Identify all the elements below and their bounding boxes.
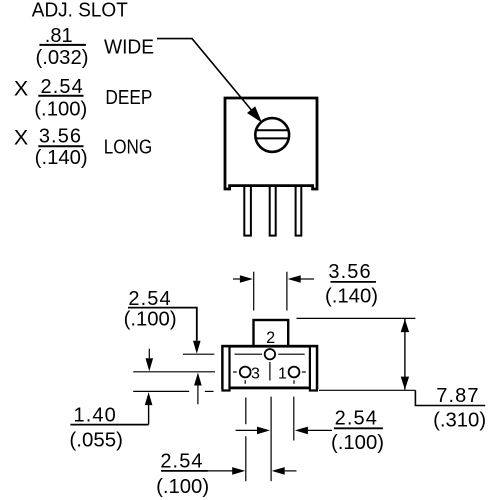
pin 1 terminal circle	[289, 367, 300, 378]
svg-text:1: 1	[278, 366, 287, 383]
bottom view: mounting tab	[254, 320, 289, 348]
center extension line	[270, 397, 272, 482]
svg-text:DEEP: DEEP	[105, 87, 152, 109]
svg-text:LONG: LONG	[104, 136, 153, 158]
fraction 3.56 bar	[38, 145, 83, 147]
dim 3.56 underline	[331, 281, 377, 283]
leader line from WIDE to screw slot	[157, 39, 252, 111]
svg-text:(.055): (.055)	[69, 429, 123, 451]
bottom view: left end cap	[223, 346, 230, 390]
svg-text:3.56: 3.56	[39, 125, 82, 147]
svg-text:X: X	[14, 77, 28, 101]
svg-text:3.56: 3.56	[328, 261, 371, 283]
dim 7.87 top extension line	[297, 317, 416, 319]
svg-text:.81: .81	[45, 25, 73, 47]
dim 1.40 underline	[70, 424, 148, 426]
svg-text:2.54: 2.54	[128, 288, 171, 310]
dim 7.87 vertical dimension line	[404, 319, 406, 390]
pin 3 extension line lower	[245, 436, 247, 481]
dim 3.56 right-pointing arrow	[233, 278, 242, 280]
pin 3 terminal circle	[240, 367, 251, 378]
dim 2.54 left underline and bracket	[128, 308, 197, 341]
front view: adjustment screw circle	[255, 118, 289, 152]
dim 7.87 bottom extension line	[319, 389, 415, 391]
dim 3.56 left-pointing arrow	[301, 278, 315, 280]
dim 2.54 bottom-left left-pointing arrow	[272, 467, 285, 475]
dim 2.54 left down arrowhead	[193, 341, 201, 354]
svg-text:(.140): (.140)	[35, 147, 88, 169]
svg-text:(.140): (.140)	[325, 286, 378, 308]
dim 2.54 right-bottom right-pointing arrow	[236, 429, 258, 431]
front view: lead pin right	[296, 186, 302, 236]
svg-text:7.87: 7.87	[436, 385, 479, 407]
fraction .81 bar	[39, 44, 86, 46]
extension line C (body bottom) left part	[133, 390, 189, 392]
svg-text:X: X	[14, 126, 28, 150]
up arrow to pin row line	[194, 373, 202, 386]
pin 1 extension line	[293, 397, 295, 441]
svg-text:2.54: 2.54	[160, 451, 203, 473]
extension line C (body bottom) dash right part	[205, 390, 214, 392]
centerline below pin 2	[269, 362, 271, 381]
screw slot upper line	[256, 129, 288, 131]
pin 2 terminal circle	[265, 349, 275, 359]
svg-text:ADJ. SLOT: ADJ. SLOT	[32, 0, 128, 22]
dim 2.54 bottom-left underline	[161, 470, 208, 472]
dim 3.56 extension line left	[253, 272, 255, 311]
svg-text:(.032): (.032)	[36, 47, 89, 69]
bottom view: right end cap	[310, 346, 317, 390]
svg-text:1.40: 1.40	[74, 404, 117, 426]
centerline dash below pin 1	[293, 380, 295, 384]
svg-text:WIDE: WIDE	[104, 37, 154, 59]
screw slot lower line	[256, 137, 289, 139]
front view: lead pin center	[270, 186, 276, 236]
dim 3.56 extension line right	[286, 272, 288, 311]
svg-text:(.100): (.100)	[156, 476, 209, 498]
centerline dash right of pin 2	[278, 353, 305, 355]
svg-text:2.54: 2.54	[335, 408, 378, 430]
bottom view: body	[223, 346, 317, 388]
centerline dash right of pin 1	[302, 371, 306, 373]
leader arrowhead	[248, 107, 261, 121]
svg-text:2: 2	[266, 329, 275, 347]
up arrow for 1.40 dim	[145, 392, 153, 405]
dim 2.54 right-bottom underline	[334, 427, 383, 429]
front view: body outline with feet	[225, 98, 317, 189]
dim 2.54 right-bottom left-pointing arrow	[295, 427, 308, 435]
dim 2.54 bottom-left right-pointing arrow	[208, 470, 233, 472]
centerline dash below pin 3	[244, 380, 246, 384]
down arrow to pin row line	[148, 349, 150, 359]
extension line A (pin2 row)	[183, 353, 214, 355]
pin 3 extension line upper	[245, 398, 247, 425]
svg-text:2.54: 2.54	[41, 76, 84, 98]
fraction 2.54 bar	[38, 95, 83, 97]
centerline dash left of pin 3	[233, 371, 237, 373]
svg-text:3: 3	[251, 366, 260, 383]
svg-text:(.100): (.100)	[124, 308, 177, 330]
svg-text:(.100): (.100)	[34, 98, 87, 120]
svg-text:(.310): (.310)	[433, 409, 486, 431]
dim 7.87 bracket	[415, 390, 485, 405]
svg-text:(.100): (.100)	[331, 432, 384, 454]
centerline dash left of pin 2	[235, 353, 263, 355]
extension line B (pin1/3 row)	[133, 371, 215, 373]
front view: lead pin left	[244, 186, 251, 236]
